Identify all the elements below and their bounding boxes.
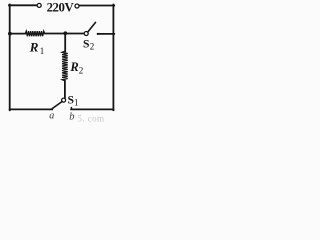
svg-text:a: a bbox=[49, 111, 54, 122]
svg-text:S: S bbox=[83, 37, 89, 50]
node junction middle row / R2 branch bbox=[63, 31, 67, 35]
wire bottom-right segment (node b to right corner) bbox=[71, 108, 113, 110]
svg-text:S: S bbox=[68, 94, 74, 107]
svg-text:b: b bbox=[69, 111, 74, 122]
wire bottom-left segment (left corner to node a) bbox=[10, 108, 53, 110]
resistor R1 bbox=[25, 31, 45, 36]
node b wire-end tick bbox=[70, 108, 72, 110]
label R1 bbox=[29, 40, 44, 56]
svg-text:1: 1 bbox=[40, 46, 45, 56]
wire right border bbox=[112, 5, 114, 111]
svg-text:R: R bbox=[69, 60, 78, 74]
node junction left border / middle row bbox=[8, 32, 12, 36]
terminal right of 220V supply bbox=[75, 4, 79, 8]
label S2 bbox=[83, 37, 94, 51]
wire left border bbox=[9, 5, 11, 111]
svg-text:220V: 220V bbox=[47, 0, 75, 14]
label S1 bbox=[68, 94, 79, 108]
svg-text:5. com: 5. com bbox=[78, 113, 105, 123]
svg-text:2: 2 bbox=[79, 66, 84, 76]
svg-text:R: R bbox=[29, 40, 39, 55]
label R2 bbox=[69, 60, 83, 75]
wire S2 right lead to right border bbox=[98, 33, 114, 35]
svg-text:1: 1 bbox=[74, 98, 79, 108]
svg-text:2: 2 bbox=[90, 42, 95, 52]
resistor R2 bbox=[62, 51, 68, 81]
switch S2 bbox=[84, 22, 99, 35]
wire R2 bottom lead bbox=[64, 81, 66, 99]
wire middle row R1 to S2 bbox=[45, 33, 85, 35]
wire top-right segment bbox=[79, 5, 114, 7]
switch S1 bbox=[52, 98, 65, 109]
wire top-left segment bbox=[9, 4, 37, 6]
wire middle row left (border to R1) bbox=[10, 33, 26, 35]
terminal left of 220V supply bbox=[37, 3, 41, 7]
wire R2 top lead bbox=[64, 33, 66, 51]
